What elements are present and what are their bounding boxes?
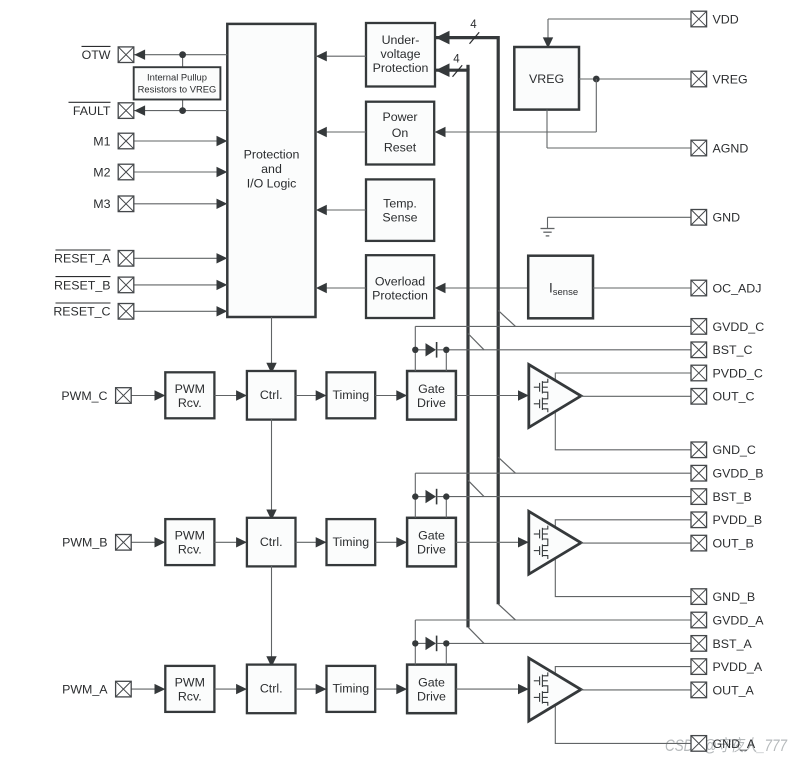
svg-text:PWM: PWM xyxy=(175,676,205,690)
svg-text:GND_B: GND_B xyxy=(713,590,756,604)
svg-text:PWM_A: PWM_A xyxy=(62,683,108,697)
wire BST_A line xyxy=(437,642,691,644)
arrow into Ctrl A (from PWM Rcv) xyxy=(236,684,247,694)
bus tap BST_B xyxy=(468,480,484,496)
block Isense xyxy=(528,256,593,319)
wire PVDD_C / GND_C bracket xyxy=(555,373,691,450)
wire Ctrl to Timing B xyxy=(296,541,327,543)
wire PWM_B to PWM Rcv xyxy=(131,541,165,543)
svg-text:Ctrl.: Ctrl. xyxy=(260,535,283,549)
svg-text:M3: M3 xyxy=(93,197,110,211)
arrow into PWM Rcv B xyxy=(155,537,166,547)
arrow into POR (VREG) xyxy=(435,127,446,137)
bus arrow into UV Protection (top) xyxy=(436,31,450,45)
block Under-voltage Protection xyxy=(366,23,435,87)
svg-text:Resistors to VREG: Resistors to VREG xyxy=(138,83,217,94)
arrow into Ctrl B xyxy=(266,510,276,521)
svg-text:OTW: OTW xyxy=(82,48,111,62)
block PWM Rcv B xyxy=(165,519,214,565)
terminal M2 xyxy=(118,164,134,180)
label RESET_A xyxy=(54,250,111,266)
wire pullup junction vertical xyxy=(182,55,184,67)
wire Isense to Overload Protection xyxy=(434,287,528,289)
wire POR to Protection xyxy=(316,131,367,133)
wire PWM_A to PWM Rcv xyxy=(131,688,165,690)
wire FAULT to Protection xyxy=(134,110,228,112)
wire GVDD node down to Gate Drive B xyxy=(414,497,416,518)
svg-text:GND: GND xyxy=(713,211,741,225)
arrow into Gate Drive A xyxy=(396,684,407,694)
svg-text:Timing: Timing xyxy=(332,535,369,549)
wire Temp Sense to Protection xyxy=(316,209,367,211)
wire OUT_A line xyxy=(581,689,691,691)
bus tap BST_C xyxy=(468,334,484,350)
arrow into Protection (M2) xyxy=(217,167,228,177)
svg-text:Drive: Drive xyxy=(417,690,446,704)
wire VREG output to VREG terminal xyxy=(579,78,691,80)
svg-text:Rcv.: Rcv. xyxy=(178,396,202,410)
terminal PVDD_C xyxy=(691,365,707,381)
svg-text:Ctrl.: Ctrl. xyxy=(260,388,283,402)
svg-text:RESET_A: RESET_A xyxy=(54,252,111,266)
wire PWM Rcv to Ctrl C xyxy=(214,395,247,397)
bus tap GVDD_C xyxy=(498,310,515,326)
svg-text:FAULT: FAULT xyxy=(73,104,111,118)
mosfet high-side B xyxy=(534,526,548,543)
terminal PVDD_B xyxy=(691,512,707,528)
block PWM Rcv A xyxy=(165,666,214,712)
wire PVDD_A / GND_A bracket xyxy=(555,667,691,744)
terminal OTW xyxy=(118,47,134,63)
terminal OUT_C xyxy=(691,389,707,405)
label FAULT xyxy=(69,102,111,118)
svg-text:GND_A: GND_A xyxy=(713,737,756,751)
svg-text:PWM_B: PWM_B xyxy=(62,536,107,550)
block Power On Reset xyxy=(366,102,434,165)
bootstrap diode D_C xyxy=(426,342,437,358)
svg-text:4: 4 xyxy=(453,53,460,65)
wire diode anode lead A xyxy=(415,642,425,644)
arrow into power stage A xyxy=(518,684,529,694)
svg-text:Drive: Drive xyxy=(417,543,446,557)
arrow into power stage B xyxy=(518,537,529,547)
block Timing A xyxy=(327,666,376,712)
arrow into Gate Drive B xyxy=(396,537,407,547)
block VREG xyxy=(514,47,579,110)
terminal PWM_B xyxy=(116,535,132,551)
svg-text:4: 4 xyxy=(470,19,477,31)
wire GVDD node down to Gate Drive C xyxy=(414,350,416,371)
wire VDD to VREG xyxy=(548,18,691,20)
bootstrap diode D_B xyxy=(426,489,437,505)
wire Gate Drive to power stage C xyxy=(456,395,529,397)
label M2 xyxy=(93,165,110,179)
wire Ctrl to Timing A xyxy=(296,688,327,690)
block Ctrl C xyxy=(247,371,296,420)
arrow into Gate Drive C xyxy=(396,390,407,400)
label OTW xyxy=(82,46,111,62)
wire BST_B line xyxy=(437,496,691,498)
terminal GVDD_C xyxy=(691,319,707,335)
svg-text:PVDD_C: PVDD_C xyxy=(713,366,763,380)
terminal FAULT xyxy=(118,103,134,119)
svg-text:I/O Logic: I/O Logic xyxy=(247,177,297,191)
terminal AGND xyxy=(691,140,707,156)
terminal OUT_B xyxy=(691,535,707,551)
wire PWM Rcv to Ctrl B xyxy=(214,541,247,543)
block Ctrl A xyxy=(247,665,296,714)
arrow into Protection (RESET_B) xyxy=(217,280,228,290)
block Overload Protection xyxy=(366,255,434,318)
svg-text:PWM_C: PWM_C xyxy=(61,389,107,403)
wire Overload to Protection xyxy=(316,287,367,289)
wire RESET_B to Protection xyxy=(134,284,228,286)
svg-text:RESET_C: RESET_C xyxy=(53,305,110,319)
terminal VDD xyxy=(691,11,707,27)
svg-text:PWM: PWM xyxy=(175,529,205,543)
svg-text:OUT_C: OUT_C xyxy=(713,390,755,404)
terminal OUT_A xyxy=(691,682,707,698)
wire control chain into Ctrl C xyxy=(271,317,273,372)
wire M3 to Protection xyxy=(134,203,228,205)
block Timing B xyxy=(327,519,376,565)
wire Gate Drive to power stage B xyxy=(456,541,529,543)
wire OUT_B line xyxy=(581,542,691,544)
svg-text:Rcv.: Rcv. xyxy=(178,543,202,557)
terminal RESET_C xyxy=(118,304,134,320)
terminal GND_B xyxy=(691,589,707,605)
svg-text:VREG: VREG xyxy=(713,72,748,86)
terminal GVDD_B xyxy=(691,465,707,481)
svg-text:On: On xyxy=(392,126,409,140)
terminal BST_A xyxy=(691,636,707,652)
arrow into VREG (VDD) xyxy=(543,37,553,48)
svg-text:Timing: Timing xyxy=(332,388,369,402)
arrow into PWM Rcv C xyxy=(155,390,166,400)
power stage triangle B xyxy=(529,511,581,574)
wire OUT_C line xyxy=(581,395,691,397)
terminal PWM_C xyxy=(116,388,132,404)
svg-text:Sense: Sense xyxy=(382,211,417,225)
wire PWM Rcv to Ctrl A xyxy=(214,688,247,690)
block Gate Drive A xyxy=(407,665,456,714)
svg-text:Protection: Protection xyxy=(372,289,428,303)
label M3 xyxy=(93,197,110,211)
wire BST_C line xyxy=(437,349,691,351)
wire PWM_C to PWM Rcv xyxy=(131,395,165,397)
bus width slash (4) top xyxy=(470,32,480,44)
arrow into Protection (M3) xyxy=(217,199,228,209)
block PWM Rcv C xyxy=(165,372,214,418)
svg-text:Rcv.: Rcv. xyxy=(178,690,202,704)
junction dot BST/diode C xyxy=(443,347,449,353)
bus tap GVDD_A xyxy=(498,604,515,620)
arrow into Protection (RESET_A) xyxy=(217,253,228,263)
junction dot BST/diode B xyxy=(443,493,449,499)
svg-text:RESET_B: RESET_B xyxy=(54,278,110,292)
svg-text:OUT_B: OUT_B xyxy=(713,537,754,551)
bus width slash (4) lower xyxy=(453,65,463,77)
svg-text:OUT_A: OUT_A xyxy=(713,683,755,697)
wire control chain into Ctrl B xyxy=(271,418,273,519)
junction dot VREG output xyxy=(593,76,600,83)
terminal BST_B xyxy=(691,489,707,505)
svg-text:Drive: Drive xyxy=(417,396,446,410)
wire OTW to Protection xyxy=(134,54,228,56)
bus BST (4) to UV Protection xyxy=(435,70,468,627)
mosfet high-side A xyxy=(534,672,548,689)
junction dot GVDD/diode B xyxy=(412,493,418,499)
arrow into terminal OTW xyxy=(134,50,145,60)
arrow into Protection (UV) xyxy=(316,51,327,61)
terminal GND xyxy=(691,210,707,226)
arrow into Protection (M1) xyxy=(217,136,228,146)
svg-text:GVDD_C: GVDD_C xyxy=(713,320,765,334)
wire RESET_C to Protection xyxy=(134,310,228,312)
junction dot on OTW line xyxy=(179,51,186,58)
bus BST stub above corner xyxy=(466,65,469,70)
svg-text:OC_ADJ: OC_ADJ xyxy=(713,281,762,295)
arrow into Overload (Isense) xyxy=(435,283,446,293)
terminal M1 xyxy=(118,133,134,149)
svg-text:GND_C: GND_C xyxy=(713,443,756,457)
svg-text:Gate: Gate xyxy=(418,676,445,690)
arrow into Protection (Overload) xyxy=(316,283,327,293)
arrow into power stage C xyxy=(518,390,529,400)
svg-text:Timing: Timing xyxy=(332,682,369,696)
wire VREG to AGND terminal xyxy=(546,110,548,148)
terminal M3 xyxy=(118,196,134,212)
bus GVDD (4) to UV Protection xyxy=(435,38,498,605)
arrow into Ctrl C (from PWM Rcv) xyxy=(236,390,247,400)
wire UV Protection to Protection xyxy=(316,55,367,57)
terminal BST_C xyxy=(691,342,707,358)
block Gate Drive C xyxy=(407,371,456,420)
svg-text:BST_C: BST_C xyxy=(713,343,753,357)
svg-text:Overload: Overload xyxy=(375,275,425,289)
junction dot on FAULT line xyxy=(179,107,186,114)
label M1 xyxy=(93,134,110,148)
power stage triangle C xyxy=(529,365,581,428)
mosfet high-side C xyxy=(534,379,548,396)
svg-text:Power: Power xyxy=(382,110,417,124)
ground symbol xyxy=(541,229,555,236)
terminal PVDD_A xyxy=(691,659,707,675)
wire Gate Drive to power stage A xyxy=(456,688,529,690)
arrow into terminal FAULT xyxy=(134,105,145,115)
wire diode anode lead C xyxy=(415,349,425,351)
terminal OC_ADJ xyxy=(691,280,707,296)
terminal RESET_A xyxy=(118,251,134,267)
arrow into Ctrl A xyxy=(266,656,276,667)
terminal GND_C xyxy=(691,442,707,458)
power stage triangle A xyxy=(529,658,581,721)
svg-text:Gate: Gate xyxy=(418,529,445,543)
junction dot GVDD/diode C xyxy=(412,347,418,353)
junction dot GVDD/diode A xyxy=(412,640,418,646)
terminal VREG xyxy=(691,71,707,87)
svg-text:Protection: Protection xyxy=(244,148,300,162)
wire Timing to Gate Drive B xyxy=(375,541,407,543)
block Temp. Sense xyxy=(366,179,434,241)
bus arrow into UV Protection (lower) xyxy=(436,63,450,77)
svg-text:M1: M1 xyxy=(93,134,110,148)
block Timing C xyxy=(327,372,376,418)
wire GVDD_B line xyxy=(415,472,691,474)
wire PVDD_B / GND_B bracket xyxy=(555,520,691,597)
svg-text:PVDD_B: PVDD_B xyxy=(713,513,763,527)
svg-text:GVDD_B: GVDD_B xyxy=(713,467,764,481)
wire RESET_A to Protection xyxy=(134,257,228,259)
svg-text:and: and xyxy=(261,162,282,176)
wire GND terminal to ground xyxy=(548,216,692,218)
arrow into Timing B xyxy=(316,537,327,547)
wire diode anode lead B xyxy=(415,496,425,498)
bootstrap diode D_A xyxy=(426,636,437,652)
terminal RESET_B xyxy=(118,277,134,293)
svg-text:VREG: VREG xyxy=(529,72,564,86)
svg-text:Reset: Reset xyxy=(384,141,417,155)
wire Timing to Gate Drive A xyxy=(375,688,407,690)
label RESET_C xyxy=(53,303,110,319)
arrow into Ctrl C xyxy=(266,363,276,374)
svg-text:voltage: voltage xyxy=(381,47,421,61)
svg-text:GVDD_A: GVDD_A xyxy=(713,613,765,627)
wire M2 to Protection xyxy=(134,171,228,173)
svg-text:AGND: AGND xyxy=(713,141,749,155)
mosfet low-side A xyxy=(534,689,548,706)
svg-text:Internal Pullup: Internal Pullup xyxy=(147,72,207,83)
arrow into Ctrl B (from PWM Rcv) xyxy=(236,537,247,547)
svg-text:Under-: Under- xyxy=(382,33,420,47)
mosfet low-side B xyxy=(534,542,548,559)
wire GVDD_A line xyxy=(415,619,691,621)
arrow into PWM Rcv A xyxy=(155,684,166,694)
svg-text:BST_B: BST_B xyxy=(713,490,752,504)
wire Timing to Gate Drive C xyxy=(375,395,407,397)
svg-text:M2: M2 xyxy=(93,165,110,179)
arrow into Protection (RESET_C) xyxy=(217,306,228,316)
block Internal Pullup Resistors to VREG xyxy=(134,67,221,99)
arrow into Timing C xyxy=(316,390,327,400)
svg-text:VDD: VDD xyxy=(713,12,739,26)
label RESET_B xyxy=(54,277,110,293)
wire Isense to OC_ADJ terminal xyxy=(593,287,691,289)
terminal GVDD_A xyxy=(691,612,707,628)
mosfet low-side C xyxy=(534,395,548,412)
wire GVDD node down to Gate Drive A xyxy=(414,643,416,664)
bus tap BST_A xyxy=(468,627,484,643)
wire GVDD_C line xyxy=(415,325,691,327)
arrow into Timing A xyxy=(316,684,327,694)
terminal PWM_A xyxy=(116,681,132,697)
svg-text:PVDD_A: PVDD_A xyxy=(713,660,763,674)
bus tap GVDD_B xyxy=(498,457,515,473)
block Protection and I/O Logic U1 xyxy=(227,24,315,317)
svg-text:Ctrl.: Ctrl. xyxy=(260,682,283,696)
block Ctrl B xyxy=(247,518,296,567)
wire VREG to Power On Reset xyxy=(595,79,597,132)
wire Ctrl to Timing C xyxy=(296,395,327,397)
junction dot BST/diode A xyxy=(443,640,449,646)
svg-text:Temp.: Temp. xyxy=(383,197,417,211)
arrow into Protection (POR) xyxy=(316,127,327,137)
block Gate Drive B xyxy=(407,518,456,567)
arrow into Protection (Temp) xyxy=(316,205,327,215)
wire M1 to Protection xyxy=(134,140,228,142)
svg-text:Protection: Protection xyxy=(373,61,429,75)
wire control chain into Ctrl A xyxy=(271,565,273,666)
svg-text:PWM: PWM xyxy=(175,382,205,396)
svg-text:Gate: Gate xyxy=(418,382,445,396)
terminal GND_A xyxy=(691,736,707,752)
svg-text:BST_A: BST_A xyxy=(713,637,753,651)
